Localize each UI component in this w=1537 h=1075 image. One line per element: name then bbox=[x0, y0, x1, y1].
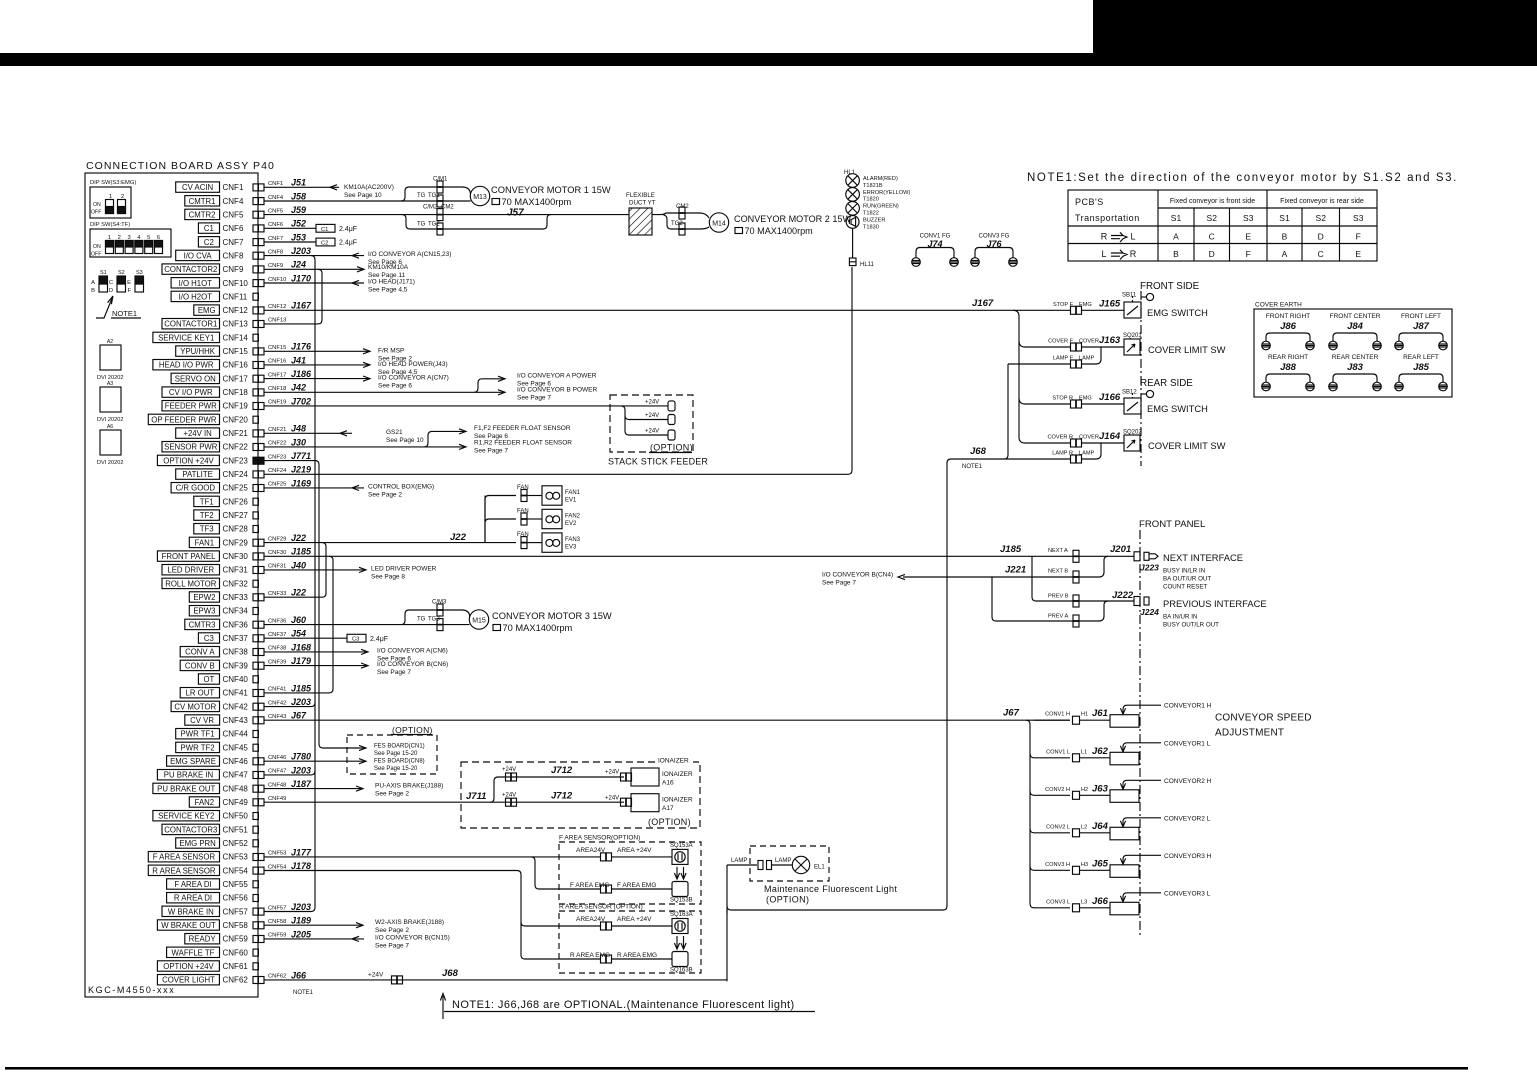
wire CNF19 J702 to stack stick feeder bbox=[264, 405, 668, 407]
svg-text:A17: A17 bbox=[662, 805, 674, 812]
svg-text:See Page 6: See Page 6 bbox=[378, 383, 412, 390]
maintenance light option box bbox=[750, 846, 829, 881]
svg-text:CNF48: CNF48 bbox=[268, 782, 286, 788]
svg-text:CNF49: CNF49 bbox=[268, 796, 286, 802]
connector CNF34 EPW3 bbox=[189, 606, 219, 616]
svg-text:CV I/O PWR: CV I/O PWR bbox=[169, 388, 213, 397]
svg-text:J170: J170 bbox=[291, 273, 311, 283]
svg-text:AREA +24V: AREA +24V bbox=[617, 916, 652, 923]
svg-text:H2: H2 bbox=[1081, 787, 1088, 793]
svg-text:J164: J164 bbox=[1099, 431, 1121, 442]
svg-text:J186: J186 bbox=[291, 369, 312, 379]
svg-text:J771: J771 bbox=[291, 451, 311, 461]
svg-text:OPTION +24V: OPTION +24V bbox=[163, 456, 214, 465]
svg-text:SQ163B: SQ163B bbox=[670, 968, 693, 974]
svg-text:+24V IN: +24V IN bbox=[183, 429, 211, 438]
svg-text:J51: J51 bbox=[291, 178, 306, 188]
svg-text:Transportation: Transportation bbox=[1075, 213, 1140, 223]
svg-text:CNF39: CNF39 bbox=[268, 659, 286, 665]
connector CNF20 OP FEEDER PWR bbox=[148, 414, 219, 424]
svg-text:CNF28: CNF28 bbox=[223, 525, 249, 534]
svg-text:J221: J221 bbox=[1005, 565, 1026, 576]
svg-text:S2: S2 bbox=[118, 270, 125, 276]
connector CNF44 PWR TF1 bbox=[176, 729, 220, 739]
wire PREV B to J222 bbox=[1032, 556, 1134, 601]
svg-text:FRONT LEFT: FRONT LEFT bbox=[1401, 313, 1441, 320]
speed adjust J64 CONVEYOR2 L bbox=[1030, 829, 1070, 833]
svg-text:SB11: SB11 bbox=[1122, 293, 1137, 299]
svg-text:LAMP: LAMP bbox=[775, 858, 791, 864]
svg-text:NEXT A: NEXT A bbox=[1048, 548, 1068, 554]
svg-text:J86: J86 bbox=[1280, 321, 1297, 332]
svg-text:CNF17: CNF17 bbox=[223, 374, 249, 383]
svg-text:SENSOR PWR: SENSOR PWR bbox=[164, 443, 218, 452]
svg-text:L: L bbox=[1101, 249, 1106, 259]
svg-text:J57: J57 bbox=[507, 208, 524, 219]
svg-text:EMG: EMG bbox=[1079, 396, 1092, 402]
svg-text:FAN2: FAN2 bbox=[565, 514, 581, 520]
svg-text:STOP R: STOP R bbox=[1052, 396, 1073, 402]
wire duct to motor M14 bbox=[652, 213, 709, 218]
svg-text:S3: S3 bbox=[1243, 213, 1254, 223]
svg-text:CNF47: CNF47 bbox=[268, 769, 286, 775]
svg-text:CNF57: CNF57 bbox=[223, 907, 249, 916]
connector CNF41 LR OUT J185 bbox=[180, 688, 219, 698]
svg-text:S2: S2 bbox=[1207, 213, 1218, 223]
svg-text:F1,F2 FEEDER FLOAT SENSOR: F1,F2 FEEDER FLOAT SENSOR bbox=[474, 425, 571, 432]
svg-text:HL1: HL1 bbox=[844, 170, 856, 176]
machine boundary front/rear dash-dot bbox=[1140, 291, 1142, 466]
svg-text:YPU/HHK: YPU/HHK bbox=[180, 347, 215, 356]
svg-text:COUNT RESET: COUNT RESET bbox=[1163, 584, 1207, 591]
svg-text:CNF38: CNF38 bbox=[268, 646, 286, 652]
svg-text:F AREA EMG: F AREA EMG bbox=[617, 882, 656, 889]
svg-text:CONVEYOR1 H: CONVEYOR1 H bbox=[1164, 703, 1212, 710]
svg-text:READY: READY bbox=[189, 935, 217, 944]
svg-text:CNF30: CNF30 bbox=[223, 552, 249, 561]
fan bus vertical bbox=[485, 496, 516, 543]
svg-text:TG2: TG2 bbox=[671, 221, 683, 227]
svg-text:J185: J185 bbox=[1000, 544, 1022, 555]
connector CNF1 CV ACIN J51 bbox=[176, 182, 220, 192]
svg-text:See Page 15-20: See Page 15-20 bbox=[374, 751, 418, 757]
lamp bus J68 to maintenance light bbox=[727, 364, 1008, 914]
svg-text:See Page 2: See Page 2 bbox=[375, 927, 409, 934]
svg-text:EPW2: EPW2 bbox=[193, 593, 215, 602]
svg-text:J83: J83 bbox=[1347, 362, 1364, 373]
svg-text:ON: ON bbox=[93, 202, 101, 208]
svg-text:SERVO ON: SERVO ON bbox=[175, 374, 216, 383]
dip switch S3 body bbox=[90, 187, 131, 218]
svg-text:D: D bbox=[1209, 249, 1215, 259]
connector CNF12 EMG J167 bbox=[194, 305, 220, 315]
svg-text:CNF38: CNF38 bbox=[223, 648, 249, 657]
svg-text:CNF54: CNF54 bbox=[223, 866, 249, 875]
svg-text:J167: J167 bbox=[291, 301, 312, 311]
svg-text:TG1: TG1 bbox=[428, 193, 440, 199]
svg-text:CNF62: CNF62 bbox=[223, 976, 249, 985]
svg-text:WAFFLE TF: WAFFLE TF bbox=[172, 948, 215, 957]
svg-text:J68: J68 bbox=[970, 446, 987, 457]
wire CNF58 J189 W2-axis brake bbox=[264, 924, 363, 926]
wire CNF47 J203 branch bbox=[264, 771, 315, 775]
svg-text:NEXT B: NEXT B bbox=[1048, 569, 1068, 575]
connector CNF62 COVER LIGHT J66 bbox=[157, 975, 219, 985]
svg-text:J60: J60 bbox=[291, 615, 306, 625]
svg-text:NOTE1: NOTE1 bbox=[112, 309, 137, 318]
svg-text:PREVIOUS INTERFACE: PREVIOUS INTERFACE bbox=[1163, 598, 1267, 609]
svg-text:OFF: OFF bbox=[91, 210, 101, 216]
svg-text:CNF30: CNF30 bbox=[268, 550, 286, 556]
svg-text:S2: S2 bbox=[1316, 213, 1327, 223]
svg-text:I/O H1OT: I/O H1OT bbox=[179, 279, 213, 288]
wire CNF39 J179 bbox=[264, 665, 368, 667]
connector HL11 bbox=[849, 258, 856, 266]
svg-text:R AREA SENSOR: R AREA SENSOR bbox=[152, 866, 216, 875]
svg-text:J42: J42 bbox=[291, 383, 306, 393]
wire CNF31 J40 LED driver power bbox=[264, 569, 366, 571]
wire CNF1 J51 to KM10A bbox=[264, 186, 339, 188]
svg-text:C2: C2 bbox=[204, 238, 214, 247]
svg-text:J219: J219 bbox=[291, 465, 311, 475]
svg-text:70 MAX1400rpm: 70 MAX1400rpm bbox=[503, 623, 573, 633]
svg-text:J203: J203 bbox=[291, 902, 311, 912]
motor M14 bbox=[709, 213, 728, 232]
svg-text:CNF8: CNF8 bbox=[223, 251, 244, 260]
svg-text:DUCT YT: DUCT YT bbox=[629, 200, 656, 207]
svg-text:J54: J54 bbox=[291, 629, 306, 639]
svg-text:NOTE1: NOTE1 bbox=[293, 990, 314, 996]
svg-text:E: E bbox=[127, 280, 131, 286]
svg-text:C/M1: C/M1 bbox=[433, 177, 448, 183]
svg-text:T1830: T1830 bbox=[863, 224, 879, 230]
connector CNF47 PU BRAKE IN J203 bbox=[157, 770, 219, 780]
svg-text:CNF39: CNF39 bbox=[223, 661, 249, 670]
svg-text:70 MAX1400rpm: 70 MAX1400rpm bbox=[745, 226, 813, 236]
svg-text:TG3: TG3 bbox=[428, 617, 440, 623]
svg-text:CNF60: CNF60 bbox=[223, 948, 249, 957]
svg-text:CNF24: CNF24 bbox=[268, 468, 287, 474]
svg-text:CNF13: CNF13 bbox=[268, 318, 286, 324]
svg-text:CNF19: CNF19 bbox=[223, 402, 249, 411]
svg-text:See Page 8: See Page 8 bbox=[371, 573, 405, 580]
connector CNF19 FEEDER PWR J702 bbox=[162, 401, 220, 411]
wire CNF54 J178 to R area sensor bbox=[264, 871, 600, 960]
speed adjust J65 CONVEYOR3 H bbox=[1030, 866, 1070, 870]
svg-text:T1821B: T1821B bbox=[863, 183, 883, 189]
svg-text:CNF12: CNF12 bbox=[268, 304, 286, 310]
svg-text:COVER LIMIT SW: COVER LIMIT SW bbox=[1148, 440, 1226, 451]
svg-text:CNF58: CNF58 bbox=[223, 921, 249, 930]
svg-text:SB12: SB12 bbox=[1122, 390, 1137, 396]
svg-text:CNF31: CNF31 bbox=[223, 566, 249, 575]
buzzer lamp bbox=[846, 216, 859, 229]
svg-text:C/R GOOD: C/R GOOD bbox=[176, 484, 216, 493]
arrows SQ163A to SQ163B bbox=[676, 936, 678, 949]
connector CNF33 EPW2 J22 bbox=[189, 592, 219, 602]
connector CNF5 CMTR2 J59 bbox=[185, 209, 220, 219]
svg-text:+24V: +24V bbox=[502, 767, 516, 773]
svg-text:J53: J53 bbox=[291, 232, 306, 242]
svg-text:CNF62: CNF62 bbox=[268, 974, 286, 980]
connector CNF43 CV VR J67 bbox=[185, 715, 220, 725]
svg-text:CNF17: CNF17 bbox=[268, 372, 286, 378]
svg-text:CNF41: CNF41 bbox=[223, 689, 249, 698]
svg-text:TF3: TF3 bbox=[200, 525, 214, 534]
svg-text:J22: J22 bbox=[291, 533, 306, 543]
connector CNF50 SERVICE KEY2 bbox=[153, 811, 220, 821]
svg-text:See Page 2: See Page 2 bbox=[375, 791, 409, 798]
svg-text:CNF25: CNF25 bbox=[268, 482, 286, 488]
svg-text:IONAIZER: IONAIZER bbox=[662, 797, 693, 804]
svg-text:COVER R: COVER R bbox=[1048, 435, 1074, 441]
speed adjust J63 CONVEYOR2 H bbox=[1030, 791, 1070, 795]
svg-text:J87: J87 bbox=[1413, 321, 1430, 332]
svg-text:S3: S3 bbox=[136, 270, 143, 276]
svg-text:TF2: TF2 bbox=[200, 511, 214, 520]
svg-text:J67: J67 bbox=[1003, 708, 1020, 719]
svg-text:J67: J67 bbox=[291, 711, 307, 721]
svg-text:CNF53: CNF53 bbox=[268, 851, 286, 857]
bus J203 vertical bbox=[311, 256, 315, 912]
bus EMG vertical from J167 bbox=[1013, 310, 1025, 443]
wire CNF49 to ionizer J711 bbox=[264, 801, 624, 803]
connector CNF7 C2 J53 bbox=[198, 237, 219, 247]
wire CNF43 J67 to conveyor speed adjustment bbox=[264, 719, 1070, 721]
svg-text:C1: C1 bbox=[321, 227, 328, 233]
svg-text:J222: J222 bbox=[1112, 590, 1134, 601]
connector CNF6 C1 J52 bbox=[198, 223, 219, 233]
svg-text:COVER EARTH: COVER EARTH bbox=[1255, 302, 1302, 309]
svg-text:CNF52: CNF52 bbox=[223, 839, 249, 848]
svg-text:C1: C1 bbox=[204, 224, 214, 233]
svg-text:+24V: +24V bbox=[605, 796, 619, 802]
svg-text:REAR LEFT: REAR LEFT bbox=[1403, 354, 1439, 361]
connector CNF61 OPTION +24V bbox=[157, 961, 219, 971]
svg-text:CNF4: CNF4 bbox=[223, 197, 244, 206]
svg-text:C3: C3 bbox=[352, 637, 359, 643]
front panel dash-dot boundary bbox=[1139, 530, 1141, 938]
ionizer branch up bbox=[490, 777, 624, 802]
bottom border line bbox=[5, 1067, 1468, 1070]
svg-text:J22: J22 bbox=[450, 532, 467, 543]
connector CNF26 TF1 bbox=[194, 496, 220, 506]
svg-text:CONV A: CONV A bbox=[185, 648, 215, 657]
svg-text:AREA +24V: AREA +24V bbox=[617, 847, 652, 854]
svg-text:I/O CONVEYOR A POWER: I/O CONVEYOR A POWER bbox=[517, 372, 597, 379]
svg-text:See Page 10: See Page 10 bbox=[386, 437, 424, 444]
svg-text:LR OUT: LR OUT bbox=[186, 689, 215, 698]
bus J67 vertical bbox=[1026, 720, 1034, 908]
motor M15 bbox=[469, 610, 488, 629]
connector CNF27 TF2 bbox=[194, 510, 220, 520]
svg-text:OT: OT bbox=[203, 675, 214, 684]
svg-text:C/M2: C/M2 bbox=[423, 205, 438, 211]
connector CNF40 OT bbox=[198, 674, 219, 684]
svg-text:BA OUT/UR OUT: BA OUT/UR OUT bbox=[1163, 576, 1211, 583]
connector CNF15 YPU/HHK J176 bbox=[176, 346, 220, 356]
connector CNF13 CONTACTOR1 bbox=[162, 319, 220, 329]
connector CNF51 CONTACTOR3 bbox=[162, 824, 220, 834]
svg-text:I/O CONVEYOR A(CN15,23): I/O CONVEYOR A(CN15,23) bbox=[368, 251, 451, 258]
svg-text:J22: J22 bbox=[291, 588, 306, 598]
svg-text:PU BRAKE IN: PU BRAKE IN bbox=[164, 771, 213, 780]
svg-text:LAMP: LAMP bbox=[731, 858, 747, 864]
connector CNF10 I/O H1OT J170 bbox=[171, 278, 219, 288]
svg-text:CNF36: CNF36 bbox=[268, 618, 286, 624]
plug symbol J223 bbox=[1144, 552, 1149, 560]
svg-text:EMG SWITCH: EMG SWITCH bbox=[1147, 403, 1208, 414]
svg-text:Fixed conveyor is rear side: Fixed conveyor is rear side bbox=[1280, 198, 1364, 205]
svg-text:C: C bbox=[1209, 232, 1215, 242]
wire CNF22 J30 feeder float sensors bbox=[264, 446, 466, 448]
svg-text:J66: J66 bbox=[1092, 896, 1109, 907]
svg-text:CNF41: CNF41 bbox=[268, 687, 286, 693]
svg-text:CONVEYOR3 L: CONVEYOR3 L bbox=[1164, 890, 1211, 897]
svg-text:2.4μF: 2.4μF bbox=[339, 226, 357, 233]
connector CNF39 CONV B J179 bbox=[180, 660, 219, 670]
svg-text:CNF31: CNF31 bbox=[268, 564, 286, 570]
connector CNF22 SENSOR PWR J30 bbox=[162, 442, 220, 452]
svg-text:IONAIZER: IONAIZER bbox=[658, 758, 689, 765]
motor M13 bbox=[470, 186, 489, 205]
connector CNF9 CONTACTOR2 J24 bbox=[162, 264, 220, 274]
transportation table bbox=[1068, 190, 1377, 261]
svg-text:FES BOARD(CN8): FES BOARD(CN8) bbox=[374, 759, 425, 765]
svg-text:A: A bbox=[91, 280, 95, 286]
svg-text:CNF10: CNF10 bbox=[223, 279, 249, 288]
svg-text:I/O CONVEYOR B(CN6): I/O CONVEYOR B(CN6) bbox=[377, 661, 448, 668]
svg-text:B: B bbox=[91, 288, 95, 294]
svg-text:EMG: EMG bbox=[198, 306, 216, 315]
svg-text:J52: J52 bbox=[291, 219, 306, 229]
svg-text:SERVICE KEY1: SERVICE KEY1 bbox=[158, 333, 214, 342]
svg-text:FEEDER PWR: FEEDER PWR bbox=[165, 402, 217, 411]
svg-text:COVER F: COVER F bbox=[1048, 339, 1073, 345]
svg-text:R AREA DI: R AREA DI bbox=[174, 894, 212, 903]
svg-text:FAN1: FAN1 bbox=[565, 490, 581, 496]
svg-text:CNF58: CNF58 bbox=[268, 919, 286, 925]
header black bar bbox=[0, 53, 1537, 66]
svg-text:Maintenance Fluorescent Light: Maintenance Fluorescent Light bbox=[764, 884, 897, 894]
svg-text:CNF26: CNF26 bbox=[223, 497, 249, 506]
svg-text:T1822: T1822 bbox=[863, 211, 879, 217]
wire CNF15 J176 to F/R MSP bbox=[264, 350, 370, 352]
svg-text:I/O CVA: I/O CVA bbox=[184, 251, 213, 260]
svg-text:CNF47: CNF47 bbox=[223, 771, 249, 780]
svg-text:CNF22: CNF22 bbox=[268, 441, 286, 447]
svg-text:CNF42: CNF42 bbox=[223, 702, 249, 711]
svg-text:CONVEYOR MOTOR 1 15W: CONVEYOR MOTOR 1 15W bbox=[491, 185, 611, 195]
svg-text:+24V: +24V bbox=[605, 770, 619, 776]
dip switch S3 lever 1 bbox=[106, 200, 114, 214]
svg-text:PREV A: PREV A bbox=[1048, 614, 1068, 620]
svg-text:(OPTION): (OPTION) bbox=[648, 817, 691, 827]
svg-text:CNF1: CNF1 bbox=[268, 181, 283, 187]
svg-text:S1: S1 bbox=[1279, 213, 1290, 223]
connector J222 at boundary bbox=[1134, 597, 1140, 606]
svg-text:CNF21: CNF21 bbox=[268, 427, 286, 433]
svg-text:EV1: EV1 bbox=[565, 498, 577, 504]
wire CNF48 J187 PU-axis brake bbox=[264, 788, 363, 790]
svg-text:FRONT SIDE: FRONT SIDE bbox=[1140, 281, 1200, 292]
svg-text:FRONT CENTER: FRONT CENTER bbox=[1330, 313, 1381, 320]
header black corner block bbox=[1093, 0, 1537, 66]
svg-text:CNF7: CNF7 bbox=[223, 238, 244, 247]
svg-text:C3: C3 bbox=[204, 634, 214, 643]
svg-text:I/O HEAD POWER(J43): I/O HEAD POWER(J43) bbox=[378, 361, 448, 368]
svg-text:LAMP R: LAMP R bbox=[1052, 451, 1073, 457]
svg-text:EMG: EMG bbox=[1079, 302, 1092, 308]
svg-text:See Page 7: See Page 7 bbox=[375, 942, 409, 949]
svg-text:CMTR1: CMTR1 bbox=[189, 197, 216, 206]
svg-text:D: D bbox=[109, 288, 113, 294]
svg-text:EMG PRN: EMG PRN bbox=[179, 839, 215, 848]
svg-text:F: F bbox=[127, 288, 131, 294]
svg-text:L: L bbox=[1130, 232, 1135, 242]
svg-text:J61: J61 bbox=[1092, 708, 1108, 719]
svg-text:W BRAKE IN: W BRAKE IN bbox=[168, 907, 214, 916]
svg-text:CNF43: CNF43 bbox=[223, 716, 249, 725]
capacitor C2 2.4uF bbox=[264, 241, 316, 243]
connector CNF60 WAFFLE TF bbox=[167, 947, 220, 957]
svg-text:CNF29: CNF29 bbox=[223, 538, 249, 547]
svg-text:PATLITE: PATLITE bbox=[182, 470, 212, 479]
svg-text:SQ163A: SQ163A bbox=[670, 912, 693, 918]
svg-text:A3: A3 bbox=[107, 381, 113, 387]
svg-text:CONNECTION BOARD ASSY P40: CONNECTION BOARD ASSY P40 bbox=[86, 160, 275, 172]
svg-text:CONV3 L: CONV3 L bbox=[1046, 899, 1070, 905]
svg-text:ROLL MOTOR: ROLL MOTOR bbox=[165, 579, 216, 588]
svg-text:E: E bbox=[1245, 232, 1251, 242]
svg-text:J62: J62 bbox=[1092, 746, 1109, 757]
svg-text:REAR SIDE: REAR SIDE bbox=[1140, 378, 1193, 389]
svg-text:J24: J24 bbox=[291, 260, 306, 270]
svg-text:FLEXIBLE: FLEXIBLE bbox=[626, 192, 655, 199]
svg-text:EV2: EV2 bbox=[565, 521, 577, 527]
svg-text:COVER LIMIT SW: COVER LIMIT SW bbox=[1148, 344, 1226, 355]
svg-text:LED DRIVER POWER: LED DRIVER POWER bbox=[371, 565, 437, 572]
svg-text:CONVEYOR1 L: CONVEYOR1 L bbox=[1164, 740, 1211, 747]
svg-text:CNF6: CNF6 bbox=[268, 222, 283, 228]
svg-text:CNF54: CNF54 bbox=[268, 864, 287, 870]
ionizer option box bbox=[461, 762, 700, 828]
svg-text:See Page 2: See Page 2 bbox=[368, 491, 402, 498]
svg-text:CONVEYOR3 H: CONVEYOR3 H bbox=[1164, 853, 1212, 860]
svg-text:PWR TF2: PWR TF2 bbox=[181, 743, 215, 752]
svg-text:L1: L1 bbox=[1081, 749, 1087, 755]
svg-text:CV MOTOR: CV MOTOR bbox=[174, 702, 216, 711]
svg-text:J88: J88 bbox=[1280, 362, 1297, 373]
svg-text:CNF46: CNF46 bbox=[268, 755, 286, 761]
svg-text:J59: J59 bbox=[291, 205, 306, 215]
svg-text:LED DRIVER: LED DRIVER bbox=[167, 566, 214, 575]
svg-text:L2: L2 bbox=[1081, 824, 1087, 830]
svg-text:CNF46: CNF46 bbox=[223, 757, 249, 766]
svg-text:PREV B: PREV B bbox=[1048, 594, 1069, 600]
svg-text:CNF6: CNF6 bbox=[223, 224, 244, 233]
svg-text:S1: S1 bbox=[100, 270, 107, 276]
svg-text:PU BRAKE OUT: PU BRAKE OUT bbox=[157, 784, 215, 793]
svg-text:FES BOARD(CN1): FES BOARD(CN1) bbox=[374, 744, 425, 750]
connector CNF17 SERVO ON J186 bbox=[171, 373, 219, 383]
svg-text:GS21: GS21 bbox=[386, 429, 403, 436]
capacitor C1 2.4uF bbox=[264, 227, 316, 229]
svg-text:CNF61: CNF61 bbox=[223, 962, 249, 971]
svg-text:C/M3: C/M3 bbox=[432, 600, 447, 606]
connector CNF49 FAN2 bbox=[189, 797, 219, 807]
svg-text:R: R bbox=[1101, 232, 1108, 242]
